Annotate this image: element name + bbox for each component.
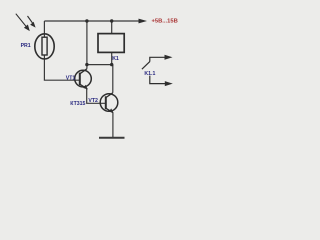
- light arrow 1 to PR1: [16, 14, 30, 31]
- transistor VT1: [75, 69, 92, 90]
- svg-text:K1.1: K1.1: [144, 71, 155, 77]
- junction dot rail-VT1 collector: [85, 19, 88, 22]
- photoresistor PR1: [35, 34, 54, 59]
- transistor VT2: [100, 93, 118, 113]
- contact arrow bottom: [165, 81, 173, 86]
- junction dot K1 bottom: [110, 63, 113, 66]
- svg-text:КТ315: КТ315: [70, 101, 85, 107]
- svg-text:+5В...15В: +5В...15В: [152, 18, 178, 24]
- wire relay K1 top lead: [111, 21, 113, 34]
- wire VT2 emitter to ground: [112, 112, 114, 137]
- power arrow +5V..15V: [139, 19, 148, 24]
- svg-text:K1: K1: [112, 56, 119, 62]
- relay coil K1: [98, 34, 124, 53]
- wire top +V rail: [44, 20, 139, 22]
- junction dot rail-K1: [110, 19, 113, 22]
- wire collector node horizontal: [87, 64, 113, 66]
- svg-text:VT1: VT1: [66, 76, 76, 82]
- junction dot collector node left: [85, 63, 88, 66]
- wire VT1 collector to rail: [86, 21, 88, 69]
- wire relay K1 bottom lead: [111, 52, 113, 64]
- ground: [99, 137, 125, 139]
- light arrow 2 to PR1: [28, 16, 36, 28]
- svg-text:VT2: VT2: [88, 98, 98, 104]
- wire VT1 emitter to VT2 base: [87, 89, 106, 103]
- wire PR1 top lead: [43, 21, 45, 38]
- relay contact K1.1: [142, 57, 166, 83]
- wire VT2 collector: [112, 65, 114, 93]
- wire PR1 bottom to VT1 base: [44, 55, 80, 80]
- contact arrow top: [165, 55, 173, 60]
- svg-text:PR1: PR1: [21, 43, 31, 49]
